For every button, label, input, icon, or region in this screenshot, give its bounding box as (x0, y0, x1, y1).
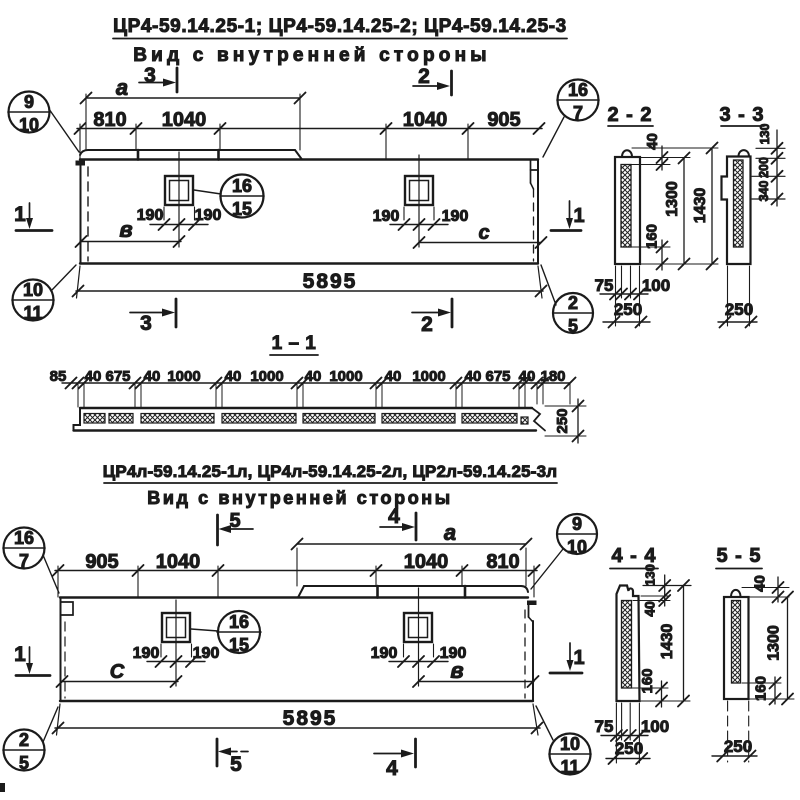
svg-text:16: 16 (14, 528, 34, 548)
section 5-5 dim 40 (742, 575, 789, 602)
circle 16/7 p2 (3, 528, 59, 594)
svg-text:11: 11 (23, 303, 42, 323)
svg-text:10: 10 (567, 537, 587, 557)
svg-text:C: C (110, 661, 125, 683)
dim 190 190 right opening (373, 207, 469, 230)
svg-text:85: 85 (50, 368, 67, 385)
svg-text:810: 810 (486, 551, 519, 573)
svg-text:190: 190 (442, 208, 469, 225)
section 3-3 body (722, 150, 751, 264)
section 4-4 title (610, 545, 658, 569)
svg-text:160: 160 (639, 668, 656, 693)
svg-text:40: 40 (305, 368, 322, 385)
svg-text:9: 9 (24, 92, 34, 112)
circle 10/11 p2 (536, 706, 591, 777)
svg-text:3: 3 (144, 64, 156, 87)
dim row 810/1040 .. 1040/905 (75, 109, 545, 159)
panel 1 outline (80, 160, 538, 264)
section 4-4 dim 160 (632, 668, 668, 707)
svg-text:130: 130 (643, 564, 658, 586)
title block 2 (103, 462, 558, 508)
svg-text:15: 15 (232, 199, 252, 219)
svg-text:5: 5 (229, 510, 240, 532)
section mark 1 left (14, 203, 52, 231)
section 5-5 bottom dim 250 (712, 701, 757, 762)
svg-text:2 - 2: 2 - 2 (607, 104, 652, 126)
svg-text:100: 100 (641, 717, 669, 736)
svg-text:Вид с внутренней стороны: Вид с внутренней стороны (147, 488, 453, 508)
svg-text:1040: 1040 (404, 551, 449, 573)
panel 1 top tab strip (80, 150, 302, 160)
svg-text:a: a (116, 75, 128, 100)
svg-text:1040: 1040 (156, 551, 201, 573)
svg-text:Вид с внутренней стороны: Вид с внутренней стороны (133, 45, 490, 66)
section 5-5 dim 160 (742, 676, 781, 705)
svg-text:160: 160 (753, 676, 770, 701)
section 4-4 body (617, 586, 640, 702)
section 3-3 bottom dim 250 (718, 266, 757, 328)
svg-text:1: 1 (573, 205, 584, 227)
svg-text:40: 40 (144, 368, 161, 385)
svg-text:7: 7 (573, 103, 583, 123)
dim 190 190 left opening p2 (133, 644, 220, 667)
section mark 2 bottom (412, 299, 452, 336)
svg-text:75: 75 (595, 717, 614, 736)
title block 1 (113, 16, 567, 66)
svg-text:1: 1 (14, 203, 26, 226)
section mark 1 right (551, 201, 585, 231)
svg-text:a: a (444, 520, 456, 545)
section 2-2 dim 1430 (632, 143, 718, 270)
svg-text:100: 100 (642, 276, 670, 295)
section 5-5 title (716, 545, 762, 569)
svg-text:3 - 3: 3 - 3 (719, 104, 764, 126)
section 2-2 dim 40 (631, 133, 690, 170)
section 2-2 bottom dims 75/100/250 (595, 266, 671, 328)
svg-text:15: 15 (229, 635, 249, 655)
section 5-5 dim 1300 (749, 592, 794, 705)
svg-text:1: 1 (573, 647, 584, 669)
section mark 5 top (218, 510, 254, 545)
svg-text:40: 40 (752, 575, 769, 592)
section mark 3 top (139, 64, 177, 92)
circle 2/5 p2 (3, 707, 58, 773)
section mark 2 top (413, 65, 452, 95)
svg-text:ЦР4л-59.14.25-1л, ЦР4л-59.14.2: ЦР4л-59.14.25-1л, ЦР4л-59.14.25-2л, ЦР2л… (103, 462, 558, 481)
section 4-4 bottom dims 75/100/250 (595, 703, 670, 764)
svg-text:1000: 1000 (412, 368, 445, 385)
section 4-4 dims 130/40 (633, 564, 691, 617)
svg-text:1000: 1000 (329, 368, 362, 385)
panel 2 outline (60, 598, 533, 702)
svg-text:675: 675 (485, 368, 510, 385)
opening 1 left (165, 152, 193, 247)
svg-text:340: 340 (757, 181, 771, 202)
svg-text:7: 7 (19, 551, 29, 571)
dim row 905/1040 .. 1040/810 (53, 551, 540, 597)
circle 16/15 top panel (194, 175, 264, 220)
svg-text:10: 10 (23, 280, 43, 300)
svg-text:10: 10 (560, 734, 580, 754)
dim 5895 panel1 (73, 266, 547, 298)
svg-text:40: 40 (642, 601, 658, 617)
section mark 4 top (380, 505, 416, 540)
svg-text:40: 40 (644, 133, 661, 150)
section 1-1 dim chain (50, 368, 576, 407)
dim a bottom panel (292, 520, 532, 586)
svg-text:16: 16 (232, 176, 252, 196)
section 2-2 title (607, 104, 653, 126)
svg-text:2: 2 (418, 65, 430, 88)
section 2-2 dim 160 (631, 224, 718, 270)
svg-text:40: 40 (519, 368, 536, 385)
dim line в right p2 (413, 658, 539, 687)
panel 2 right lug step (527, 601, 537, 606)
svg-text:190: 190 (137, 207, 164, 224)
section 1-1 hatch planks (84, 414, 528, 425)
svg-text:190: 190 (195, 207, 222, 224)
panel 1 left lug step (76, 161, 86, 166)
panel 1 left inner dashed edge (87, 167, 89, 261)
panel 1 right notch (531, 160, 539, 262)
svg-text:190: 190 (193, 645, 220, 662)
svg-text:4: 4 (388, 505, 400, 528)
section mark 3 bottom (130, 299, 176, 335)
section 3-3 title (719, 104, 764, 126)
svg-text:200: 200 (757, 157, 771, 178)
opening 1 right (405, 155, 433, 247)
svg-text:9: 9 (572, 514, 582, 534)
circle 10/11 (12, 265, 76, 323)
svg-text:40: 40 (385, 368, 402, 385)
opening 2 left (162, 600, 190, 686)
svg-text:в: в (119, 217, 132, 242)
opening 2 right (404, 588, 432, 686)
svg-text:1040: 1040 (162, 109, 207, 131)
svg-text:160: 160 (644, 224, 661, 249)
dim 5895 panel2 (53, 704, 543, 735)
circle 9/10 p2 (531, 514, 597, 589)
section 2-2 dim 1300 (664, 153, 690, 270)
circle 2/5 top half (541, 265, 593, 336)
circle 9/10 (8, 92, 79, 153)
svg-text:250: 250 (614, 300, 642, 319)
section 3-3 dims 130/200/340 (752, 124, 785, 206)
svg-text:75: 75 (595, 276, 614, 295)
svg-text:250: 250 (615, 739, 643, 758)
svg-text:5 - 5: 5 - 5 (716, 545, 761, 567)
dim 190 190 right opening p2 (371, 644, 467, 667)
section 1-1 title (270, 333, 318, 355)
dim a top (81, 75, 306, 150)
svg-text:5895: 5895 (283, 707, 338, 730)
panel 2 right edge jog (525, 605, 533, 698)
svg-text:4: 4 (386, 757, 398, 780)
svg-text:810: 810 (93, 109, 126, 131)
circle 16/15 p2 (191, 611, 261, 655)
dim line в left (76, 217, 185, 247)
svg-text:130: 130 (758, 124, 772, 145)
svg-text:1300: 1300 (766, 625, 783, 661)
svg-text:5895: 5895 (303, 270, 358, 293)
svg-text:2: 2 (19, 730, 29, 750)
section mark 4 bottom p2 (374, 739, 416, 780)
svg-text:40: 40 (225, 368, 242, 385)
svg-text:190: 190 (133, 645, 160, 662)
svg-text:5: 5 (568, 316, 578, 336)
svg-text:1430: 1430 (692, 188, 709, 224)
svg-text:ЦР4-59.14.25-1; ЦР4-59.14.25-2: ЦР4-59.14.25-1; ЦР4-59.14.25-2; ЦР4-59.1… (113, 16, 567, 37)
svg-text:16: 16 (568, 80, 588, 100)
svg-text:c: c (478, 222, 489, 244)
svg-text:1: 1 (14, 643, 26, 666)
svg-text:250: 250 (554, 408, 571, 433)
dim line C left p2 (57, 661, 182, 687)
svg-text:1000: 1000 (167, 368, 200, 385)
svg-text:5: 5 (19, 753, 29, 773)
svg-text:1000: 1000 (250, 368, 283, 385)
svg-text:40: 40 (85, 368, 102, 385)
svg-text:250: 250 (725, 300, 753, 319)
section 5-5 body (724, 590, 749, 699)
dim line c right (414, 222, 547, 248)
dim 190 190 left opening (137, 207, 222, 230)
section mark 1 right p2 (550, 643, 585, 673)
svg-text:1300: 1300 (664, 181, 681, 217)
svg-text:16: 16 (229, 612, 249, 632)
section 2-2 body (615, 150, 640, 264)
svg-text:3: 3 (140, 312, 152, 335)
svg-text:1 – 1: 1 – 1 (272, 333, 317, 354)
svg-text:190: 190 (371, 645, 398, 662)
svg-text:905: 905 (487, 109, 520, 131)
svg-text:10: 10 (19, 115, 39, 135)
svg-text:1040: 1040 (403, 109, 448, 131)
svg-text:4 - 4: 4 - 4 (611, 545, 656, 567)
svg-text:1430: 1430 (659, 624, 676, 660)
corner mark bottom-left (0, 783, 5, 792)
section mark 5 bottom p2 (217, 739, 252, 776)
svg-text:675: 675 (105, 368, 130, 385)
svg-text:2: 2 (421, 313, 433, 336)
svg-text:180: 180 (540, 368, 565, 385)
svg-text:190: 190 (373, 208, 400, 225)
svg-text:905: 905 (85, 551, 118, 573)
section 1-1 dim 250 (545, 399, 586, 443)
svg-text:в: в (450, 658, 463, 683)
section mark 1 left p2 (14, 643, 50, 676)
svg-text:2: 2 (568, 293, 578, 313)
svg-text:250: 250 (724, 737, 752, 756)
panel 2 top tab strip (298, 586, 528, 598)
svg-text:40: 40 (465, 368, 482, 385)
section 4-4 dim 1430 (640, 580, 690, 707)
svg-text:11: 11 (560, 757, 579, 777)
svg-text:5: 5 (230, 753, 242, 776)
section 1-1 body (74, 408, 546, 431)
panel 2 left notch (62, 602, 74, 698)
circle 16/7 (543, 80, 599, 158)
